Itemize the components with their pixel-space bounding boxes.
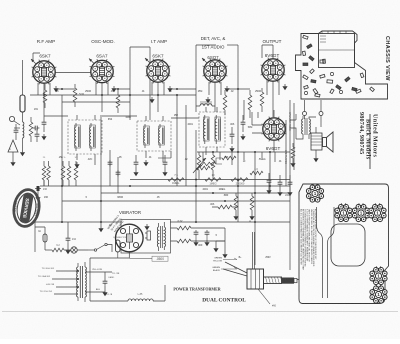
ground g1 [53,86,58,92]
resistor R31 [196,166,210,170]
resistor R16 [233,193,238,220]
label 0500 [152,256,168,261]
RF coil T1 [68,120,102,154]
ground g5 [282,84,287,90]
pilot lamp [45,244,88,253]
speaker field coil [311,127,322,162]
capacitor C11 [277,175,282,196]
socket X3 [352,203,369,221]
wire vibrator right [213,228,227,258]
vibrator enclosure box [121,220,171,254]
resistor R2 [116,90,120,113]
IF transformer T3 [199,112,225,147]
wire rail x177 [176,94,178,186]
ground vibrator [144,224,149,230]
label R.F AMP 6SK7 [37,39,55,59]
resistor network mid [200,88,264,166]
resistor R30 speaker bleeder [290,143,295,167]
dual control assembly [223,232,297,308]
resistor R3 [43,84,47,108]
capacitor C21 [65,222,76,254]
socket X2 [335,203,352,221]
chassis bottom cutout [331,224,365,266]
wire y89 links [56,88,250,90]
wire bus y222 [35,221,290,223]
antenna symbol [8,140,18,166]
tube V5 6V6GT OUTPUT [261,58,286,83]
potentiometer arrow [193,158,206,173]
wire v6 area verticals [244,100,258,125]
ground g3 [167,86,172,92]
chassis top tuner box [319,31,355,68]
chassis top view outline [296,31,388,99]
socket X4 [369,203,386,221]
capacitor C22 [102,272,114,296]
oscillator padder transformer [196,102,215,106]
capacitor C15 [35,186,48,201]
tube V4 6SQ7 DET-AVC [203,59,228,84]
resistor R11 [205,173,221,186]
vibrator VB1 [116,224,144,252]
component value labels [34,91,282,259]
transformer lead labels [38,268,120,296]
label I.T AMP 6SK7 [151,39,167,59]
resistor R14 [197,152,201,179]
capacitor C13 [162,155,167,176]
capacitor C10 [266,173,271,194]
connector capsule [113,237,127,258]
speaker terminals [303,100,324,127]
socket X6 [370,285,387,303]
wire tube V6 leads [252,110,274,152]
tube V6 6V6GT OUTPUT [262,117,287,142]
right edge wire labels [284,112,291,164]
capacitor C14 [133,155,138,176]
wire osc coil leads [143,116,163,166]
wire vertical drops from tubes [38,80,279,117]
wire rail x270 [269,152,271,193]
chassis bottom inner profile [317,207,323,298]
wire t1 coil leads [74,115,95,168]
wire bus y193 [101,192,290,194]
resistor R15 [211,152,215,179]
capacitor C1 trimmer [41,115,46,140]
wire rail x62 [61,95,63,223]
resistor R12 [231,178,248,186]
wire y152 bus [197,151,290,153]
wire rail x290 schematic right edge [286,100,294,270]
chassis bottom view outline [299,184,389,304]
output transformer T5 [290,114,316,139]
resistor R13 [250,167,263,175]
resistor R32 [212,205,238,209]
label OSC-MOD. 6SA7 [91,39,114,59]
wire horizontal bus y102 [62,101,130,103]
capacitor C30 [108,160,113,166]
resistor R17 [249,193,254,220]
oscillator coil T2 [137,121,171,151]
wire rail x150 [149,47,151,120]
wire bus y200 [62,200,290,202]
label DET,AVC,& 1ST AUDIO 6SQ7 [201,36,226,60]
wire left column x35 [35,180,44,252]
capacitor C20 [193,230,209,246]
resistor R10 [168,173,184,185]
wire extra verticals mid-left [110,150,171,193]
antenna mast lead-in [20,60,25,122]
buffer transformer T6 [145,222,165,251]
wire bus y179 [130,179,290,181]
ground g2 [111,86,116,92]
ground g6 [149,97,154,103]
note diagonal text [107,214,126,234]
ground g7 [205,97,210,103]
resistor R20 [171,226,226,230]
choke coil L5 [90,266,165,301]
capacitor C12 [285,175,293,197]
dual control wire labels [212,258,237,273]
wire grid-cap and top links [33,45,273,168]
wire short verticals y152-175 [203,152,275,165]
wire horizontal bus y95 [30,94,196,96]
label OUTPUT 6V6GT [263,39,282,58]
fuse lead left [35,227,47,250]
antenna coil L1 [9,116,39,156]
wire rail x186 [185,105,187,186]
wire rail x255 [254,152,256,265]
switch SW1 [88,243,112,252]
socket X5 [370,266,387,284]
ground g4 [224,86,229,92]
socket X1 [306,184,323,202]
tube V1 6SK7 R.F AMP [32,60,57,85]
speaker SP1 [323,132,334,152]
volume control shaft stub [297,279,299,281]
note block [300,209,317,271]
capacitor C31 [116,170,121,176]
wire rail x101 [100,115,102,222]
ground bottom box [98,222,103,232]
tube V3 6SK7 I.F AMP [146,59,171,84]
resistor R1 [73,84,84,107]
wire vibrator bottom [90,252,152,266]
chassis top components [302,35,374,97]
antenna cluster extras [9,124,39,151]
wire link y116 [44,116,199,118]
wire bus y186 [40,185,290,187]
scan texture (decorative) [0,0,1,1]
tube V2 6SA7 OSC-MOD [90,59,115,84]
logo United Motors Service stamp [11,188,42,229]
grid cap leads [31,58,207,64]
wire if1 leads [206,107,217,155]
wire rail x196 lower [195,130,197,222]
wire rail x238 lower [237,168,239,222]
resistor R21 [171,239,226,243]
extra mid labels [202,189,225,206]
resistor cluster lower-left [42,157,78,186]
power transformer T7 [52,262,112,302]
